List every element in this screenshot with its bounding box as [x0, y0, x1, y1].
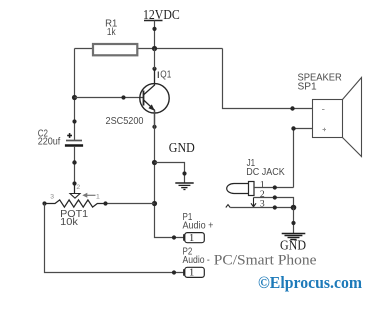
svg-text:10k: 10k: [60, 217, 79, 228]
svg-text:220uf: 220uf: [38, 137, 61, 148]
svg-text:Audio +: Audio +: [183, 221, 214, 232]
wire speaker bottom to jack pin1: [294, 129, 313, 188]
pin dot emitter: [152, 125, 156, 129]
junction jack gnd: [291, 205, 297, 211]
pin dot collector: [152, 67, 156, 71]
junction emitter gnd: [152, 160, 157, 165]
svg-text:1k: 1k: [107, 27, 116, 38]
ground right: [282, 234, 306, 240]
junction 12VDC rail: [152, 46, 157, 51]
wire C2 to POT1 wiper: [74, 147, 76, 194]
wire POT1 pin1 to emitter line: [106, 203, 155, 205]
svg-text:©Elprocus.com: ©Elprocus.com: [258, 273, 362, 292]
svg-text:1: 1: [189, 233, 194, 244]
potentiometer POT1: [45, 184, 106, 228]
resistor R1: [93, 18, 137, 55]
wire jack pin2: [254, 198, 294, 208]
wire top rail right: [138, 48, 223, 50]
pin dot P1: [172, 235, 176, 239]
wire top rail left: [75, 48, 94, 50]
wire jack pin3 sleeve: [230, 207, 293, 209]
wire emitter down: [155, 110, 184, 237]
pin dot speaker bottom: [291, 126, 295, 130]
svg-text:GND: GND: [169, 140, 195, 155]
pin dot C2 top: [72, 119, 76, 123]
svg-text:Audio -: Audio -: [183, 255, 210, 266]
pin dot P2: [172, 270, 176, 274]
svg-text:2SC5200: 2SC5200: [106, 116, 144, 127]
connector J1 DC JACK: [226, 158, 285, 209]
pin dot POT1 pin3: [42, 201, 46, 205]
ground middle: [175, 183, 193, 190]
wire base: [75, 97, 144, 99]
svg-text:GND: GND: [280, 238, 306, 253]
svg-text:3: 3: [50, 193, 54, 200]
transistor Q1: [106, 69, 172, 127]
wire jack to ground: [293, 208, 295, 234]
svg-text:PC/Smart Phone: PC/Smart Phone: [214, 251, 317, 268]
connector P2: [183, 247, 210, 279]
pin dot POT1 wiper: [72, 181, 76, 185]
pin dot jack pin2: [273, 195, 277, 199]
capacitor C2: [38, 129, 83, 148]
pin dot jack pin3: [273, 205, 277, 209]
svg-text:DC JACK: DC JACK: [246, 167, 285, 178]
wire gnd tap: [155, 163, 185, 184]
pin dot base Q1: [121, 95, 125, 99]
pin dot 12VDC: [152, 27, 156, 31]
wire collector up: [154, 49, 156, 70]
pin dot gnd right: [291, 221, 295, 225]
svg-text:1: 1: [96, 194, 100, 201]
junction emitter pot: [152, 201, 157, 206]
connector P1: [183, 212, 214, 244]
wire left rail down: [74, 49, 76, 141]
pin dot POT1 pin1: [103, 201, 107, 205]
pin dot gnd middle: [182, 171, 186, 175]
svg-text:1: 1: [189, 268, 194, 279]
junction base wire: [72, 95, 77, 100]
pin dot C2 bottom: [72, 160, 76, 164]
svg-text:SP1: SP1: [298, 82, 318, 93]
speaker SP1: [298, 72, 362, 156]
power flag 12VDC: [143, 7, 180, 49]
pin dot speaker top: [290, 106, 294, 110]
wire POT1 pin3 to P2: [45, 204, 184, 273]
wire rail to speaker: [223, 49, 313, 109]
svg-text:2: 2: [76, 184, 80, 191]
wire jack pin1: [254, 187, 294, 189]
svg-text:Q1: Q1: [160, 70, 171, 81]
pin dot jack pin1: [273, 185, 277, 189]
